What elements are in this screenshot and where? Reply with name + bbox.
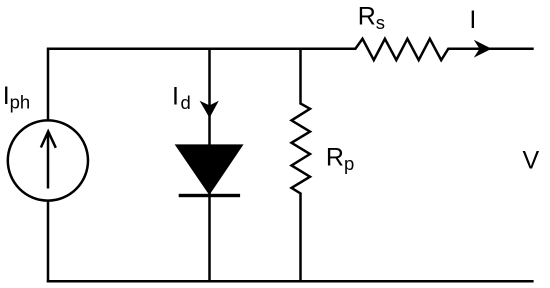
- svg-text:Id: Id: [172, 82, 191, 113]
- svg-text:V: V: [523, 147, 540, 175]
- svg-text:Iph: Iph: [3, 82, 31, 113]
- svg-text:Rp: Rp: [326, 144, 354, 175]
- svg-text:Rs: Rs: [358, 2, 385, 33]
- svg-text:I: I: [469, 6, 476, 34]
